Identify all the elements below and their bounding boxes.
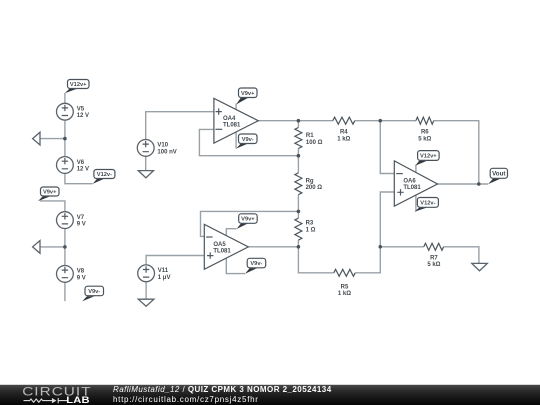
svg-text:V9v-: V9v- bbox=[88, 289, 100, 295]
svg-text:TL081: TL081 bbox=[403, 185, 421, 191]
svg-text:V10: V10 bbox=[157, 143, 168, 149]
svg-text:9 V: 9 V bbox=[77, 222, 86, 228]
svg-text:OA6: OA6 bbox=[403, 178, 416, 184]
svg-text:5 kΩ: 5 kΩ bbox=[427, 262, 440, 268]
svg-text:V9v-: V9v- bbox=[242, 137, 254, 143]
svg-text:LAB: LAB bbox=[66, 396, 90, 405]
svg-text:V9v+: V9v+ bbox=[241, 91, 255, 97]
svg-text:9 V: 9 V bbox=[77, 275, 86, 281]
svg-text:V12v+: V12v+ bbox=[420, 154, 437, 160]
svg-text:1 μV: 1 μV bbox=[158, 275, 171, 281]
svg-text:V8: V8 bbox=[77, 269, 85, 275]
svg-text:12 V: 12 V bbox=[77, 167, 89, 173]
svg-text:R7: R7 bbox=[430, 255, 438, 261]
svg-text:V11: V11 bbox=[158, 268, 169, 274]
svg-text:TL081: TL081 bbox=[223, 123, 241, 129]
svg-text:R3: R3 bbox=[306, 221, 314, 227]
svg-text:V9v+: V9v+ bbox=[43, 190, 57, 196]
svg-text:200 Ω: 200 Ω bbox=[306, 185, 323, 191]
svg-text:R6: R6 bbox=[421, 130, 429, 136]
svg-text:V5: V5 bbox=[77, 107, 85, 113]
svg-text:1 kΩ: 1 kΩ bbox=[338, 291, 351, 297]
svg-text:TL081: TL081 bbox=[213, 249, 231, 255]
svg-text:OA4: OA4 bbox=[223, 116, 236, 122]
svg-text:V12v+: V12v+ bbox=[70, 82, 87, 88]
svg-text:R1: R1 bbox=[306, 133, 314, 139]
svg-text:V7: V7 bbox=[77, 215, 85, 221]
svg-text:V12v-: V12v- bbox=[420, 200, 435, 206]
svg-text:1 Ω: 1 Ω bbox=[306, 227, 316, 233]
svg-text:1 kΩ: 1 kΩ bbox=[337, 136, 350, 142]
svg-text:R5: R5 bbox=[341, 284, 349, 290]
svg-text:12 V: 12 V bbox=[77, 113, 89, 119]
svg-text:100 Ω: 100 Ω bbox=[306, 140, 323, 146]
svg-text:V12v-: V12v- bbox=[97, 172, 112, 178]
svg-text:100 nV: 100 nV bbox=[157, 149, 176, 155]
svg-text:5 kΩ: 5 kΩ bbox=[418, 136, 431, 142]
svg-text:V6: V6 bbox=[77, 160, 85, 166]
svg-text:V9v+: V9v+ bbox=[241, 217, 255, 223]
svg-text:V9v-: V9v- bbox=[250, 261, 262, 267]
svg-text:OA5: OA5 bbox=[213, 242, 226, 248]
svg-text:R4: R4 bbox=[340, 130, 348, 136]
svg-text:Rg: Rg bbox=[306, 178, 314, 184]
svg-text:Vout: Vout bbox=[492, 171, 505, 178]
